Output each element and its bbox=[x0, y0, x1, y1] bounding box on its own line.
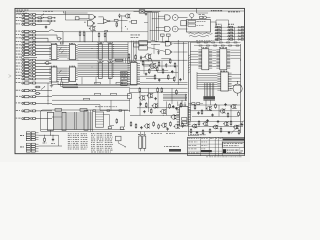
wire B7 bbox=[37, 62, 51, 64]
net label N2a bbox=[95, 93, 101, 95]
net wire N1b bbox=[63, 85, 130, 87]
nor gate U7B bbox=[165, 26, 170, 31]
comp LB3 bbox=[120, 110, 124, 129]
bus vertical 2 bbox=[116, 58, 118, 63]
label boxes LBR bbox=[182, 118, 187, 126]
wire an12 bbox=[140, 57, 153, 63]
connector P3 shield bbox=[16, 56, 37, 59]
resistor R39 bbox=[43, 137, 47, 143]
bus wire ADDR3 bbox=[78, 49, 128, 51]
handwritten note bbox=[189, 33, 213, 37]
clock bus vertical 5 bbox=[155, 12, 157, 40]
wire C6 bbox=[37, 118, 52, 120]
diode matrix row 3 col2 bbox=[228, 32, 235, 34]
bus junction dots bbox=[92, 44, 114, 77]
resistor R34 bbox=[135, 123, 137, 128]
diode matrix row 2 col3 bbox=[238, 29, 244, 31]
transistor Q8 bbox=[171, 115, 177, 120]
wire A4 bbox=[37, 22, 50, 25]
wire U12 bus 4 bbox=[197, 81, 217, 83]
wire rail stub 2 bbox=[84, 32, 87, 42]
long vertical net 2 bbox=[183, 42, 185, 80]
bus vertical 1 bbox=[114, 58, 116, 63]
wire U17 top bbox=[182, 100, 185, 107]
resistor R47 bbox=[194, 104, 196, 109]
ground symbol U3 bbox=[50, 82, 53, 88]
bus wire DATA2 bbox=[78, 66, 130, 68]
wire q20 down bbox=[92, 32, 106, 42]
vertical net v5 bbox=[171, 88, 173, 104]
resistor R14 bbox=[156, 66, 158, 72]
wire br diag bbox=[231, 121, 244, 134]
nand gate U5B bbox=[84, 21, 95, 26]
resistor R35 bbox=[153, 121, 155, 126]
transistor Q20 bbox=[89, 26, 96, 31]
bus wire ADDR0 bbox=[78, 44, 128, 46]
clock bus vertical 4 bbox=[153, 12, 155, 40]
resistor R38 bbox=[182, 122, 184, 127]
osc label box bbox=[129, 20, 137, 23]
wire G2 out bbox=[97, 22, 103, 24]
shield node bbox=[44, 61, 51, 64]
resistor pack RP3 bbox=[98, 61, 104, 78]
resistor R21 bbox=[173, 76, 175, 82]
margin smudge bbox=[9, 75, 12, 78]
clock bus vertical 2 bbox=[149, 12, 151, 40]
transistor Q12 bbox=[192, 124, 198, 128]
net wire N2 bbox=[52, 94, 130, 96]
comp boxes mid bbox=[161, 34, 171, 42]
resistor R24 bbox=[139, 87, 141, 93]
bus wire ADDR1 bbox=[78, 46, 128, 48]
wire U11 right out bbox=[230, 50, 240, 58]
resistor R50 bbox=[227, 112, 229, 117]
diode matrix row 3 col3 bbox=[238, 32, 244, 34]
resistor R2 bbox=[37, 20, 43, 22]
vertical net v1 bbox=[139, 92, 141, 115]
resistor R25 bbox=[145, 102, 147, 108]
wire rail stub 1 bbox=[60, 41, 63, 44]
capacitor C21 bbox=[197, 112, 199, 115]
bus vertical 6 bbox=[125, 58, 127, 63]
wire D3 bbox=[44, 135, 53, 138]
drawing number bbox=[227, 148, 243, 156]
signal arrows bus bbox=[163, 94, 187, 101]
small ic U14 bbox=[62, 78, 69, 83]
resistor R40 bbox=[190, 128, 192, 133]
resistor R49 bbox=[215, 103, 217, 108]
wire pair W2 bbox=[91, 110, 93, 132]
ic U10 bbox=[198, 47, 212, 70]
wire an3 bbox=[140, 69, 168, 72]
signal vertical 4 bbox=[208, 83, 210, 100]
xtal text bbox=[131, 35, 140, 38]
vertical net v6 bbox=[177, 102, 179, 107]
capacitor C14 bbox=[166, 128, 168, 131]
wire bend 2 bbox=[60, 82, 78, 87]
revision bar bbox=[169, 149, 181, 152]
wire shield to U10 bbox=[190, 52, 198, 66]
vertical net mr1 bbox=[205, 100, 207, 111]
pre-gate box bbox=[75, 17, 89, 20]
resistor R22 bbox=[35, 86, 41, 88]
resistor R28 bbox=[161, 87, 163, 93]
diode matrix row 2 col2 bbox=[228, 29, 235, 31]
net label box 5 bbox=[121, 83, 128, 85]
connector P1 pin 1 bbox=[16, 13, 37, 15]
ic U1 bbox=[49, 43, 59, 60]
matrix header 1 bbox=[216, 23, 222, 26]
enclosure labels bbox=[55, 106, 117, 111]
wire corner LB bbox=[104, 115, 115, 126]
wire B10 bbox=[37, 72, 51, 74]
connector P3 pin 3 bbox=[16, 47, 37, 49]
nand gate U5A bbox=[89, 15, 96, 20]
transistor Q18 bbox=[219, 109, 225, 113]
bus wire DATA3 bbox=[78, 68, 130, 70]
wire B2 bbox=[37, 44, 51, 46]
resistor R37 bbox=[170, 121, 172, 126]
wire U12 right 1 bbox=[232, 77, 241, 79]
wire A1 bbox=[37, 14, 89, 16]
diode matrix row 1 col1 bbox=[215, 26, 222, 28]
resistor R26 bbox=[150, 108, 152, 114]
wire U1-U2 7 bbox=[59, 56, 67, 58]
net label N3a bbox=[84, 98, 90, 100]
diode matrix row 1 col2 bbox=[228, 26, 235, 28]
signal vertical 7 bbox=[213, 83, 215, 100]
wire top rail bbox=[33, 41, 211, 43]
title block bbox=[188, 137, 245, 155]
vertical net an3 bbox=[161, 61, 163, 70]
transistor Q3 bbox=[139, 95, 146, 100]
connector P1 pin 3 bbox=[16, 20, 37, 22]
wire C2 bbox=[37, 90, 52, 92]
no-connect slashes bbox=[59, 48, 64, 74]
transistor Q13 bbox=[203, 122, 209, 126]
connector P4 pin 4 bbox=[16, 102, 37, 104]
capacitor C6 bbox=[171, 70, 173, 73]
resistor pack RP4 bbox=[108, 61, 114, 78]
diode matrix row 2 col1 bbox=[215, 29, 222, 31]
transistor Q10 bbox=[161, 123, 167, 127]
wire gate input 1 bbox=[158, 15, 165, 18]
wire gate input 2 bbox=[152, 17, 165, 20]
signal vertical 1 bbox=[204, 83, 206, 100]
pullup resistor R6b bbox=[98, 32, 100, 42]
wire B11 bbox=[37, 75, 51, 77]
resistor R36 bbox=[158, 124, 160, 129]
power device Q21 bbox=[230, 81, 242, 96]
wire U1-U2 5 bbox=[59, 52, 67, 54]
wire C5 bbox=[37, 110, 52, 112]
connector P3 pin 6 bbox=[16, 59, 37, 61]
transformer T1 bbox=[138, 132, 146, 152]
wire U12 bus 7 bbox=[197, 88, 217, 90]
signal vertical 5 bbox=[210, 83, 212, 100]
dac box U16 bbox=[96, 112, 104, 127]
wire U12 bus 2 bbox=[197, 77, 217, 79]
resistor R46 bbox=[238, 129, 240, 134]
section enclosure bbox=[41, 110, 129, 131]
resistor R33 bbox=[130, 121, 132, 126]
top box TB1 bbox=[134, 43, 145, 47]
commodore logotype bbox=[223, 138, 244, 141]
wire an11 bbox=[130, 114, 179, 117]
and gate U13A bbox=[165, 41, 172, 46]
bus wire ADDR4 bbox=[78, 51, 128, 53]
resistor R20 bbox=[167, 74, 169, 80]
crystal Y1 bbox=[134, 10, 153, 13]
ic U11 bbox=[216, 47, 230, 70]
bus wire DATA7 bbox=[78, 76, 130, 78]
ic U8 bbox=[127, 61, 140, 85]
diode matrix row 5 col3 bbox=[238, 39, 244, 41]
connector P2 pin 2 bbox=[16, 34, 37, 36]
wire mr1 bbox=[188, 104, 240, 106]
bus drop wires bbox=[82, 77, 110, 84]
net label SERIAL bbox=[211, 10, 222, 11]
resistor R12 bbox=[142, 60, 144, 66]
terminator row bbox=[203, 96, 215, 100]
comp LB2 bbox=[108, 118, 117, 129]
net label N2b bbox=[111, 93, 117, 95]
bus wire DATA1 bbox=[78, 64, 130, 66]
wire B3 bbox=[37, 47, 51, 49]
wire an13 bbox=[161, 58, 170, 59]
vertical net an4 bbox=[175, 67, 177, 78]
legend text column 2 bbox=[91, 133, 113, 151]
clock bus vertical 3 bbox=[151, 12, 153, 40]
shield hatch bbox=[188, 55, 190, 73]
capacitor C12 bbox=[175, 107, 177, 110]
wire C4 bbox=[37, 102, 52, 104]
legend caption bbox=[91, 151, 111, 154]
resistor pack RP5 bbox=[62, 112, 66, 130]
net wire low1 bbox=[41, 129, 125, 131]
bus wire DATA5 bbox=[78, 72, 130, 74]
bus vertical 7 bbox=[127, 58, 129, 63]
resistor R15 bbox=[162, 68, 164, 74]
diode matrix row 4 col1 bbox=[215, 36, 222, 38]
sub text row bbox=[151, 132, 175, 135]
signal vertical 3 bbox=[207, 83, 209, 100]
net wire N4 bbox=[52, 100, 130, 111]
wire an16 bbox=[140, 75, 155, 77]
wire U12 bus 0 bbox=[197, 73, 217, 75]
wire an15 bbox=[157, 71, 178, 74]
wire A3 bbox=[43, 20, 56, 22]
wire U12 right 2 bbox=[232, 81, 241, 83]
connector P4 pin 2 bbox=[16, 90, 37, 92]
wire an8 bbox=[130, 87, 188, 89]
ic U4 bbox=[67, 66, 77, 82]
transistor Q6 bbox=[152, 104, 158, 109]
wire U1-U2 1 bbox=[59, 45, 67, 47]
shielded wire pair bbox=[188, 42, 190, 136]
connector P4 pin 3 bbox=[16, 96, 37, 98]
connector P1 pin 4 bbox=[16, 23, 37, 25]
buffer ring U7B2 bbox=[172, 26, 178, 32]
pullup resistor R7b bbox=[104, 32, 106, 42]
and gate U13B bbox=[165, 50, 172, 55]
arrow mark C bbox=[41, 87, 45, 90]
resistor R29 bbox=[169, 103, 171, 109]
wire br3 bbox=[188, 130, 238, 132]
wire U3-U4 3 bbox=[59, 71, 67, 73]
diode matrix row 4 col2 bbox=[228, 36, 235, 38]
long vertical net 1 bbox=[177, 40, 179, 85]
connector P3 pin 5 bbox=[16, 53, 37, 55]
wire br1 bbox=[188, 120, 243, 122]
vertical net mr4 bbox=[230, 105, 232, 121]
vertical net v2 bbox=[148, 88, 150, 112]
connector P3 pin 10 bbox=[16, 72, 37, 74]
wire B6 bbox=[37, 59, 51, 61]
resistor R3 bbox=[114, 20, 122, 22]
connector P3 pin 12 bbox=[16, 78, 37, 80]
wire K1 out bbox=[211, 22, 217, 26]
wire an2 bbox=[143, 65, 178, 68]
net box NB1 bbox=[128, 88, 132, 112]
transistor Q15 bbox=[223, 122, 229, 126]
net wire N5 bbox=[52, 116, 62, 118]
bus vertical 4 bbox=[120, 58, 122, 63]
capacitor C22 bbox=[211, 114, 213, 117]
wire U7B out bbox=[178, 28, 187, 30]
wire clk down bbox=[127, 42, 129, 63]
transistor Q2 bbox=[149, 63, 156, 69]
wire U3-U4 1 bbox=[59, 67, 67, 69]
capacitor C23 bbox=[224, 103, 226, 106]
connector P4 pin 1 bbox=[16, 82, 37, 84]
wire B9 bbox=[37, 69, 51, 71]
transistor Q16 bbox=[233, 125, 239, 129]
wire C1 bbox=[37, 82, 52, 84]
bus wire ADDR2 bbox=[78, 47, 128, 49]
wire matrix feed bbox=[216, 20, 229, 26]
wire D2 bbox=[39, 145, 63, 147]
wire osc link bbox=[145, 10, 161, 13]
wire U12 bus 3 bbox=[197, 79, 217, 81]
capacitor C9 bbox=[154, 97, 156, 100]
capacitor C15 bbox=[51, 138, 55, 144]
diode matrix row 3 col1 bbox=[215, 32, 222, 34]
bus wire ADDR7 bbox=[78, 57, 128, 59]
pullup resistor R6 bbox=[79, 31, 81, 42]
wire B1 bbox=[37, 41, 51, 43]
wire an5 bbox=[140, 81, 188, 83]
resistor R51 bbox=[238, 111, 240, 116]
c= logo bbox=[223, 149, 226, 153]
header comp row 1 bbox=[191, 40, 241, 43]
resistor R4 bbox=[116, 22, 118, 27]
wire U3-U4 5 bbox=[59, 75, 67, 77]
wire ff links bbox=[151, 44, 160, 54]
wire an10 bbox=[137, 106, 180, 109]
wire A9 bbox=[37, 38, 48, 42]
capacitor C17 bbox=[206, 119, 208, 122]
vertical net v4 bbox=[165, 102, 167, 116]
signal vertical 6 bbox=[211, 83, 213, 100]
wire U13 outs bbox=[173, 44, 187, 52]
net wire N3 bbox=[52, 99, 130, 101]
wire U1-U2 2 bbox=[59, 47, 67, 49]
transistor Q1 bbox=[144, 54, 151, 60]
doc number text bbox=[201, 150, 212, 152]
wire U3-U4 4 bbox=[59, 73, 67, 75]
diode matrix row 4 col3 bbox=[238, 36, 244, 38]
bus vertical 5 bbox=[122, 58, 124, 63]
matrix vertical 2 bbox=[233, 27, 235, 40]
capacitor C19 bbox=[228, 131, 230, 134]
wire mr3 bbox=[192, 115, 238, 117]
bus wire ADDR6 bbox=[78, 55, 128, 57]
wire an9 bbox=[130, 91, 188, 93]
note text block bbox=[17, 10, 29, 14]
wire inv out 1 bbox=[110, 20, 114, 22]
coil comps bbox=[199, 14, 211, 19]
transistor Q17 bbox=[206, 106, 212, 110]
ic U12 bbox=[217, 71, 231, 91]
resistor R45 bbox=[230, 120, 232, 125]
matrix header 2 bbox=[228, 23, 234, 26]
wire U12 left rail bbox=[196, 72, 198, 89]
connector P4 pin 5 bbox=[16, 110, 37, 112]
diode matrix row 5 col1 bbox=[215, 39, 222, 41]
connector P4 pin 6 bbox=[16, 117, 37, 119]
net name text bbox=[43, 10, 53, 13]
arrow N1 bbox=[74, 84, 78, 85]
net wire MID60 bbox=[37, 59, 188, 62]
wire U1-U2 3 bbox=[59, 48, 67, 50]
title box bbox=[223, 142, 244, 147]
clock bus vertical 1 bbox=[147, 12, 149, 40]
wire fan U15 bbox=[54, 113, 93, 129]
wire U10-U11 links bbox=[212, 50, 216, 66]
wire U3-U4 7 bbox=[59, 79, 67, 81]
vertical net an1 bbox=[143, 62, 145, 75]
wire B8 bbox=[37, 65, 51, 67]
capacitor C13 bbox=[140, 126, 142, 129]
ic U2 bbox=[67, 43, 77, 59]
flipflop U9B bbox=[139, 46, 151, 50]
speaker LS1 bbox=[190, 13, 194, 19]
capacitor C3 bbox=[145, 12, 147, 15]
resistor R41 bbox=[198, 120, 200, 125]
vertical net mr2 bbox=[210, 100, 212, 105]
net wire N1c bbox=[63, 86, 130, 88]
vertical net an2 bbox=[150, 65, 152, 70]
connector P3 pin 11 bbox=[16, 75, 37, 77]
sheet note below bbox=[206, 155, 242, 158]
wire serial drop bbox=[197, 8, 209, 13]
varistor arrow mark 2 bbox=[41, 17, 45, 20]
transistor Q5 bbox=[147, 93, 154, 98]
capacitor C7 bbox=[179, 78, 181, 81]
bus wire DATA0 bbox=[78, 62, 130, 64]
header comp row 2 bbox=[194, 45, 241, 46]
bus wire DATA6 bbox=[78, 74, 130, 76]
wire U12 right 0 bbox=[232, 74, 241, 76]
wire B4 bbox=[37, 50, 51, 52]
connector P1 pin 2 bbox=[16, 17, 37, 19]
diode CR1 bbox=[119, 14, 121, 18]
transistor Q7 bbox=[160, 109, 166, 114]
wire D4 bbox=[58, 135, 60, 146]
wire pair W1 bbox=[74, 112, 76, 130]
wire gate input 3 bbox=[156, 26, 165, 29]
